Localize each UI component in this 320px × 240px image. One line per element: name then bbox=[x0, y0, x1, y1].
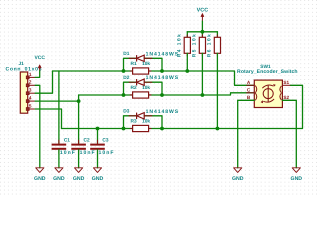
J1 pin 2 bbox=[26, 84, 35, 87]
svg-text:GND: GND bbox=[232, 176, 244, 182]
wire J1 pin2 to GND bbox=[35, 85, 40, 168]
svg-text:C1: C1 bbox=[64, 138, 70, 144]
svg-text:3: 3 bbox=[29, 88, 32, 93]
junction D1 left bbox=[122, 69, 126, 73]
diode D2 bbox=[129, 79, 153, 85]
wire R6 to row3 bbox=[216, 53, 218, 128]
J1 pin 1 bbox=[26, 76, 35, 79]
wire row2 drop to C2 bbox=[78, 95, 80, 144]
svg-text:10k: 10k bbox=[142, 61, 150, 67]
resistor R2 bbox=[130, 94, 152, 96]
wire diode D3 loop bbox=[124, 116, 137, 129]
svg-text:2: 2 bbox=[29, 80, 32, 85]
resistor R4 bbox=[186, 35, 188, 57]
SW1 pin B bbox=[246, 99, 254, 101]
wire C2 to ground bbox=[78, 150, 80, 168]
SW1 rotation arrow bottom bbox=[263, 99, 274, 102]
svg-text:D2: D2 bbox=[123, 75, 129, 81]
svg-text:GND: GND bbox=[73, 176, 85, 182]
junction R5 row2 bbox=[201, 93, 205, 97]
junction VCC rail bbox=[201, 30, 205, 34]
wire S2 to ground bbox=[282, 100, 296, 168]
svg-text:10nF: 10nF bbox=[60, 150, 75, 156]
svg-text:GND: GND bbox=[53, 176, 65, 182]
wire row3 bbox=[62, 85, 303, 128]
svg-text:10nF: 10nF bbox=[99, 150, 114, 156]
wire diode D2 loop bbox=[124, 82, 137, 95]
wire diode D1 loop bbox=[124, 58, 137, 71]
svg-text:1N4148WS: 1N4148WS bbox=[146, 109, 179, 115]
junction D2 left bbox=[122, 93, 126, 97]
resistor R1 bbox=[130, 70, 152, 72]
ground under J1 bbox=[36, 168, 44, 173]
junction D3 left bbox=[122, 127, 126, 131]
SW1 pin C bbox=[246, 92, 254, 94]
junction row3/C3 bbox=[96, 127, 100, 131]
svg-text:R3: R3 bbox=[131, 119, 137, 125]
junction R6 row3 bbox=[216, 127, 220, 131]
junction D3 right bbox=[160, 127, 164, 131]
ground under C1 bbox=[55, 168, 63, 173]
SW1 pin S2 bbox=[282, 99, 290, 101]
wire R4 to row1 bbox=[186, 53, 188, 71]
svg-text:10nF: 10nF bbox=[80, 150, 95, 156]
svg-text:D1: D1 bbox=[123, 51, 129, 57]
capacitor C1 bbox=[52, 140, 67, 154]
wire C1 drop bbox=[58, 71, 60, 144]
svg-text:GND: GND bbox=[291, 176, 303, 182]
wire C1 to ground bbox=[58, 150, 60, 168]
svg-text:R2: R2 bbox=[131, 85, 137, 91]
svg-text:R1: R1 bbox=[131, 61, 137, 67]
wire R5 to row2 bbox=[201, 53, 203, 95]
resistor R3 bbox=[130, 128, 152, 130]
svg-text:10k: 10k bbox=[142, 119, 150, 125]
capacitor C3 bbox=[90, 140, 105, 154]
SW1 pin S1 bbox=[282, 84, 290, 86]
diode D1 bbox=[129, 55, 153, 61]
diode D3 bbox=[129, 113, 153, 119]
svg-text:Rotary_Encoder_Switch: Rotary_Encoder_Switch bbox=[237, 69, 298, 75]
wire C3 to ground bbox=[97, 150, 99, 168]
svg-text:1: 1 bbox=[29, 72, 32, 77]
wire R4 top bbox=[186, 32, 188, 38]
svg-text:S1: S1 bbox=[283, 80, 289, 85]
power VCC top bbox=[201, 13, 204, 21]
wire VCC bus bbox=[201, 21, 203, 32]
wire J1 pin5 bbox=[35, 109, 61, 129]
svg-text:1N4148WS: 1N4148WS bbox=[146, 51, 179, 57]
connector J1 body bbox=[20, 72, 27, 113]
SW1 rotation arrow top bbox=[262, 85, 273, 88]
SW1 left contacts bbox=[255, 86, 256, 101]
wire B to ground bbox=[238, 100, 255, 168]
SW1 right contacts bbox=[280, 86, 282, 100]
svg-text:Conn_01x05: Conn_01x05 bbox=[6, 66, 42, 72]
wire row2 bbox=[79, 93, 255, 95]
J1 pin 4 bbox=[26, 100, 35, 103]
wire pullup top rail bbox=[187, 31, 217, 33]
wire diode D2 loop right bbox=[144, 82, 162, 95]
wire row1 bbox=[53, 71, 255, 85]
wire R6 top bbox=[216, 32, 218, 38]
svg-text:VCC: VCC bbox=[197, 7, 209, 13]
svg-text:GND: GND bbox=[92, 176, 104, 182]
junction pin4/C2 bbox=[77, 99, 81, 103]
rotary encoder SW1 body bbox=[254, 80, 282, 107]
svg-text:D3: D3 bbox=[123, 108, 129, 114]
svg-text:S2: S2 bbox=[283, 95, 289, 100]
svg-text:1N4148WS: 1N4148WS bbox=[146, 75, 179, 81]
ground under C3 bbox=[93, 168, 101, 173]
svg-text:GND: GND bbox=[34, 176, 46, 182]
svg-text:10k: 10k bbox=[142, 85, 150, 91]
power VCC left bbox=[38, 65, 41, 71]
ground under S2 bbox=[292, 168, 300, 173]
junction D2 right bbox=[160, 93, 164, 97]
wire R5 top bbox=[201, 32, 203, 38]
ground under SW1 bbox=[234, 168, 242, 173]
wire diode D1 loop right bbox=[144, 58, 162, 71]
svg-text:C3: C3 bbox=[102, 138, 108, 144]
svg-text:5: 5 bbox=[29, 103, 32, 108]
wire J1 pin1 to VCC bbox=[35, 71, 40, 78]
J1 pin 3 bbox=[26, 92, 35, 95]
SW1 pin A bbox=[246, 84, 254, 86]
wire J1 pin4 bbox=[35, 100, 78, 102]
capacitor C2 bbox=[71, 140, 86, 154]
svg-text:C2: C2 bbox=[84, 138, 90, 144]
resistor R6 bbox=[216, 35, 218, 57]
J1 pin 5 bbox=[26, 108, 35, 111]
ground under C2 bbox=[75, 168, 83, 173]
svg-text:VCC: VCC bbox=[34, 55, 45, 61]
svg-text:4: 4 bbox=[29, 96, 32, 101]
resistor R5 bbox=[201, 35, 203, 57]
wire row3 drop to C3 bbox=[97, 129, 99, 144]
junction D1 right bbox=[160, 69, 164, 73]
junction R4 row1 bbox=[185, 69, 189, 73]
SW1 encoder circle bbox=[263, 86, 273, 102]
wire J1 pin3 to row1 bbox=[35, 71, 52, 93]
wire diode D3 loop right bbox=[144, 116, 162, 129]
